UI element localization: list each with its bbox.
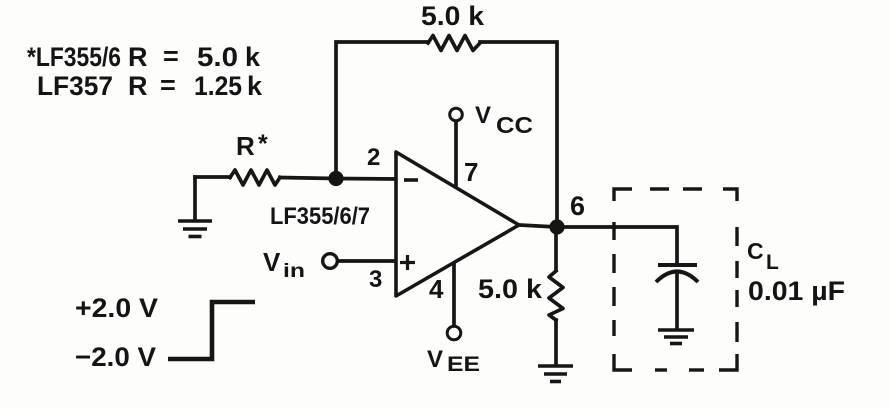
svg-text:1.25: 1.25 xyxy=(194,71,242,101)
svg-text:k: k xyxy=(245,42,261,72)
wire: op-amp output to node 6 and into load box xyxy=(519,225,677,264)
resistor R* (zigzag) xyxy=(230,170,280,185)
resistor R_F 5.0 k (top feedback, zigzag) xyxy=(428,36,480,51)
capacitor CL curved bottom plate xyxy=(656,272,698,283)
svg-text:5.0: 5.0 xyxy=(197,42,238,72)
svg-text:6: 6 xyxy=(570,191,585,221)
svg-text:*LF355/6: *LF355/6 xyxy=(27,42,121,72)
svg-text:V: V xyxy=(475,102,491,129)
svg-text:=: = xyxy=(160,70,176,100)
svg-text:4: 4 xyxy=(429,274,444,304)
wire: pin 7 to Vcc terminal xyxy=(454,122,458,193)
op-amp non-inverting input plus sign xyxy=(400,255,415,270)
svg-text:C: C xyxy=(747,238,764,264)
svg-text:CC: CC xyxy=(496,112,533,138)
svg-text:in: in xyxy=(283,261,305,282)
svg-text:3: 3 xyxy=(369,266,382,293)
svg-text:L: L xyxy=(766,251,779,274)
Vin terminal circle xyxy=(323,254,338,269)
svg-text:k: k xyxy=(247,71,263,101)
wire: feedback left vertical from node A up to top rail xyxy=(336,42,428,179)
svg-text:R: R xyxy=(128,71,148,101)
Vee terminal circle xyxy=(447,326,461,340)
wire: feedback top rail right + right vertical down to output node xyxy=(480,42,557,227)
svg-text:2: 2 xyxy=(367,144,380,171)
ground symbol (capacitor CL) xyxy=(658,330,694,344)
wire: capacitor CL lower plate to ground xyxy=(675,272,679,328)
capacitor CL top plate xyxy=(658,263,697,267)
dashed load box xyxy=(614,189,737,370)
svg-text:5.0 k: 5.0 k xyxy=(421,1,485,31)
wire: R* to inverting input pin 2 through node A xyxy=(280,178,399,180)
svg-text:LF357: LF357 xyxy=(37,71,113,101)
wire: load resistor to ground xyxy=(554,320,558,364)
resistor R_L 5.0 k (vertical zigzag) xyxy=(549,271,563,320)
op-amp U1 LF355/6/7 triangle xyxy=(396,152,519,296)
wire: node 6 down to load resistor xyxy=(554,230,558,270)
wire: pin 4 to Vee terminal xyxy=(452,260,456,326)
svg-text:R: R xyxy=(128,42,148,72)
ground symbol (load resistor) xyxy=(538,366,573,382)
ground symbol (input side) xyxy=(178,221,212,237)
svg-text:−2.0 V: −2.0 V xyxy=(75,342,156,372)
svg-text:0.01 µF: 0.01 µF xyxy=(748,276,845,306)
svg-text:V: V xyxy=(263,247,281,277)
svg-text:=: = xyxy=(163,41,179,71)
svg-text:+2.0 V: +2.0 V xyxy=(75,293,158,323)
svg-text:LF355/6/7: LF355/6/7 xyxy=(270,203,370,230)
wire: ground to resistor R* xyxy=(195,175,230,179)
wire: Vin terminal to non-inverting input pin 3 xyxy=(338,259,399,263)
svg-text:5.0 k: 5.0 k xyxy=(478,274,543,304)
svg-text:EE: EE xyxy=(447,353,480,376)
svg-text:*: * xyxy=(258,130,268,158)
input step waveform xyxy=(168,302,255,359)
node A junction dot (inverting input / feedback) xyxy=(328,171,343,186)
svg-text:R: R xyxy=(236,131,255,161)
wire: input ground stub vertical xyxy=(193,177,197,220)
Vcc terminal circle xyxy=(450,108,463,121)
svg-text:7: 7 xyxy=(464,157,478,187)
svg-text:V: V xyxy=(427,346,443,373)
op-amp inverting input minus sign xyxy=(404,178,418,182)
node 6 junction dot (output) xyxy=(549,219,564,234)
